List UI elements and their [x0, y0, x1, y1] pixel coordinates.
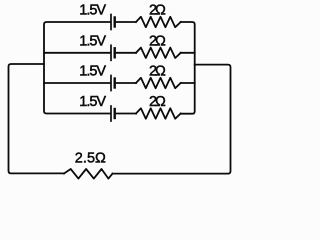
wire: left tap and outer-left down to bottom: [9, 64, 65, 173]
wire: bottom right and outer-right up to right tap: [113, 65, 231, 174]
svg-text:1.5V: 1.5V: [79, 64, 106, 80]
resistor R2 2ohm: [136, 48, 181, 58]
battery B2 short plate: [113, 48, 115, 57]
battery B1 1.5V long plate: [110, 15, 112, 30]
wire: branch 2 left segment: [44, 52, 110, 54]
wire: branch 2 battery-to-resistor: [116, 52, 137, 54]
wire: branch 3 left segment: [44, 82, 110, 84]
wire: branch 3 right segment: [181, 82, 195, 84]
wire: inner-right bus with branch 1 and branch 4 right corners: [181, 22, 195, 114]
svg-text:1.5V: 1.5V: [79, 94, 106, 110]
resistor R3 2ohm: [136, 78, 181, 88]
resistor R1 2ohm: [136, 17, 181, 27]
svg-text:2.5Ω: 2.5Ω: [75, 151, 107, 167]
wire: branch 3 battery-to-resistor: [116, 82, 137, 84]
svg-text:2Ω: 2Ω: [149, 94, 167, 110]
svg-text:1.5V: 1.5V: [79, 3, 106, 19]
battery B2 1.5V long plate: [110, 45, 112, 60]
wire: inner-left bus with branch 1 and branch 4 left corners: [44, 22, 110, 114]
wire: branch 4 battery-to-resistor: [116, 113, 137, 115]
battery B3 1.5V long plate: [110, 76, 112, 91]
battery B1 short plate: [113, 18, 115, 27]
wire: branch 2 right segment: [181, 52, 195, 54]
battery B3 short plate: [113, 79, 115, 88]
resistor R5 2.5ohm: [64, 169, 113, 179]
svg-text:1.5V: 1.5V: [79, 33, 106, 49]
wire: branch 1 battery-to-resistor: [116, 21, 137, 23]
svg-text:2Ω: 2Ω: [149, 3, 167, 19]
resistor R4 2ohm: [136, 108, 181, 118]
svg-text:2Ω: 2Ω: [149, 33, 167, 49]
svg-text:2Ω: 2Ω: [149, 64, 167, 80]
battery B4 short plate: [113, 109, 115, 118]
battery B4 1.5V long plate: [110, 106, 112, 121]
